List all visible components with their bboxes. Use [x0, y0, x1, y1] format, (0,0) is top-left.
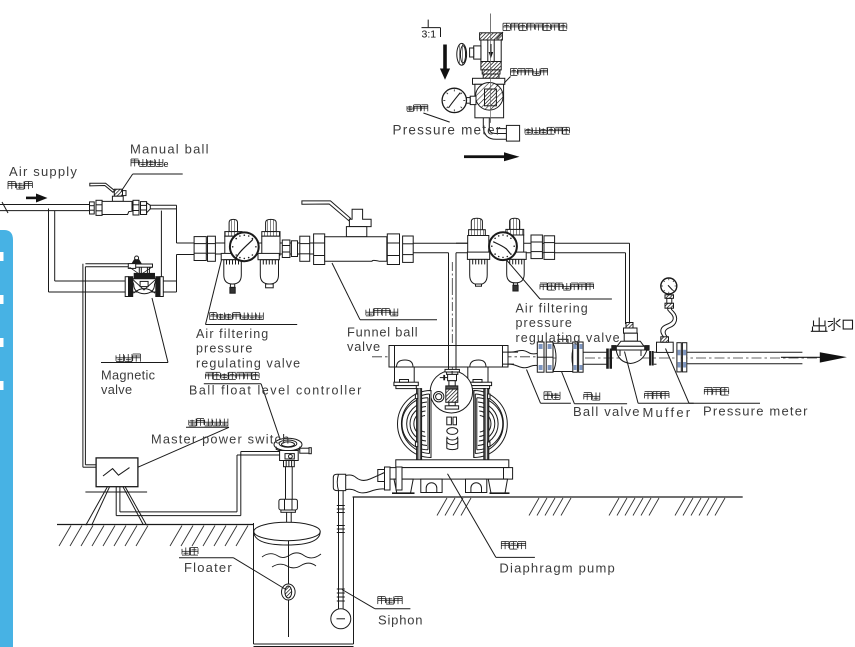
- label: water outlet: [811, 318, 853, 332]
- couplings under valve: [482, 70, 500, 74]
- vertical centerline: [489, 14, 491, 123]
- control line filter2 to outlet regulator: [629, 243, 631, 324]
- float rod: [288, 541, 290, 584]
- master power switch box: [96, 458, 138, 487]
- label: Ball float level controller: [206, 372, 260, 379]
- svg-text:Diaphragm pump: Diaphragm pump: [499, 561, 616, 576]
- elbow to pump connector: [483, 118, 519, 141]
- svg-text:Air filtering: Air filtering: [196, 327, 269, 341]
- air filtering pressure regulating valve assembly 2: [456, 218, 555, 291]
- solenoid knob: [135, 256, 139, 260]
- handwheel: [457, 43, 467, 65]
- svg-text:Master power switch: Master power switch: [151, 432, 290, 447]
- label: Master power switch: [189, 419, 228, 426]
- outlet pipe centerline: [548, 357, 818, 359]
- svg-text:Air filtering: Air filtering: [516, 302, 589, 316]
- unit2 filter: [266, 219, 277, 231]
- main air pipe filter1 to funnel valve: [194, 242, 314, 244]
- label: Air filtering pressure regulating valve left: [210, 313, 264, 320]
- air valve circle: [430, 369, 472, 413]
- center small boxes and spring: [447, 417, 458, 450]
- top plate: [129, 264, 153, 267]
- body bowl: [132, 279, 157, 294]
- svg-text:Pressure meter: Pressure meter: [393, 123, 502, 138]
- muffler box: [657, 337, 674, 353]
- unitA filter: [471, 218, 482, 230]
- pump top manifold: [389, 346, 508, 368]
- svg-text:Floater: Floater: [184, 560, 233, 575]
- air filter (top): [473, 78, 505, 118]
- left flange: [125, 277, 128, 297]
- label: Pressure meter right: [704, 388, 728, 396]
- pipe valve to corner: [150, 205, 176, 209]
- tank: [254, 497, 354, 647]
- connection box left: [128, 264, 135, 269]
- wire from solenoid to power box: [83, 264, 128, 467]
- unitB regulator: [510, 218, 520, 229]
- left diaphragm chamber: [397, 391, 431, 458]
- gauge 2: [489, 232, 517, 260]
- label: air filter: [511, 69, 548, 76]
- vertical pipe down to pump: [448, 253, 450, 346]
- svg-text:regulating valve: regulating valve: [196, 356, 301, 370]
- small gauge in circle: [434, 392, 444, 402]
- right tie bar: [484, 389, 490, 460]
- air supply pipe: [0, 202, 90, 213]
- left discharge stub and flange: [378, 467, 402, 490]
- floater plate ellipse: [254, 522, 320, 545]
- scale mark 3:1: [422, 20, 441, 41]
- float controller head: [274, 438, 311, 522]
- outlet arrow: [781, 356, 822, 358]
- flange pair right of muffler: [677, 343, 687, 372]
- gauge with siphon tube on muffler: [661, 278, 677, 337]
- left manifold elbow: [394, 360, 418, 389]
- svg-text:3:1: 3:1: [422, 29, 437, 41]
- label: Siphon: [378, 597, 402, 605]
- thick right arrow: [464, 152, 520, 161]
- float ball: [282, 584, 296, 600]
- right discharge neck to hose: [508, 352, 518, 364]
- stem: [114, 189, 122, 196]
- svg-text:Air supply: Air supply: [9, 164, 78, 179]
- pipe to regulator: [583, 351, 608, 353]
- label: Floater: [182, 548, 198, 556]
- label: Ball valve: [584, 393, 600, 401]
- label: hose right: [544, 392, 560, 400]
- hose pump to ball valve: [503, 350, 537, 367]
- ground hatching right: [437, 498, 725, 516]
- label: Funnel ball valve: [366, 309, 398, 316]
- tripod under box: [85, 487, 147, 526]
- ground line left (under tripod): [57, 524, 254, 526]
- dark flange right of regulator: [649, 351, 654, 366]
- svg-text:regulating valve: regulating valve: [516, 331, 621, 345]
- svg-text:e: e: [164, 159, 169, 169]
- pressure gauge (top): [442, 88, 476, 112]
- hose elbow pump to siphon: [333, 473, 384, 493]
- gauge 1: [230, 232, 259, 261]
- dark flange pair: [606, 349, 612, 369]
- right couplings: [282, 240, 290, 258]
- handle lever: [90, 183, 115, 192]
- left tie bar: [415, 389, 421, 460]
- pump base: [389, 460, 513, 493]
- bonnet dark: [134, 273, 154, 278]
- unit1 regulator knob: [229, 219, 237, 231]
- label: pressure meter cn: [407, 105, 428, 112]
- inlet fitting at circle top: [445, 369, 459, 372]
- svg-text:valve: valve: [347, 339, 381, 354]
- svg-text:Pressure meter: Pressure meter: [703, 404, 809, 419]
- label: Magnetic valve: [116, 354, 140, 362]
- label: Diaphragm pump: [501, 542, 525, 550]
- ground line right (under pump): [353, 496, 743, 498]
- right manifold elbow: [467, 360, 491, 389]
- air supply inlet arrow: [26, 194, 48, 203]
- stem: [285, 467, 287, 500]
- long outlet pipe: [687, 351, 803, 353]
- magnetic valve (solenoid valve): [125, 256, 163, 297]
- air filtering pressure regulating valve assembly 1: [194, 219, 310, 293]
- couplings: [194, 237, 206, 261]
- siphon pipe: [337, 491, 345, 610]
- outlet ball valve flanges: [537, 342, 553, 372]
- branch pipe down-left loop: [49, 209, 177, 293]
- siphon foot ball: [331, 609, 351, 629]
- pressure reducing valve on outlet (buffer): [612, 323, 649, 364]
- thick down arrow: [440, 45, 450, 80]
- ground hatching left: [59, 526, 248, 547]
- descending channel: [161, 205, 194, 292]
- svg-text:pressure: pressure: [196, 342, 253, 356]
- funnel ball valve: [302, 201, 413, 265]
- right couplings: [531, 235, 542, 259]
- right hexes: [387, 234, 399, 265]
- svg-text:Siphon: Siphon: [378, 613, 423, 628]
- left couplings: [90, 202, 95, 214]
- manifold centerline dash-dot: [372, 356, 543, 358]
- regulator inside circle: [448, 374, 457, 380]
- svg-text:pressure: pressure: [516, 316, 573, 330]
- svg-text:Magnetic: Magnetic: [101, 368, 156, 383]
- outlet ball valve body: [553, 339, 575, 371]
- svg-text:Ball float level controller: Ball float level controller: [189, 384, 363, 398]
- svg-text:Ball valve: Ball valve: [573, 404, 641, 419]
- svg-text:Funnel ball: Funnel ball: [347, 325, 418, 340]
- handle: [302, 201, 351, 221]
- svg-text:Muffer: Muffer: [643, 405, 693, 420]
- right diaphragm chamber: [474, 391, 508, 458]
- right flange: [156, 277, 160, 297]
- svg-text:valve: valve: [101, 382, 132, 397]
- label: diaphragm pump connector: [525, 127, 570, 134]
- posts: [138, 267, 140, 273]
- label: regulating air source valve: [503, 23, 567, 30]
- pipe regulator to muffler: [654, 351, 657, 353]
- pipe funnel valve to tee and filter2: [413, 242, 629, 244]
- wire from box to float controller: [116, 452, 279, 516]
- right couplings: [133, 200, 139, 215]
- body: [102, 201, 132, 214]
- label: Air filtering pressure regulating valve right: [540, 283, 594, 290]
- svg-text:Manual ball: Manual ball: [130, 142, 210, 157]
- hex nut: [279, 499, 298, 510]
- body: [325, 237, 387, 262]
- regulating valve of air source (top valve): [457, 33, 503, 79]
- label: Muffer: [645, 392, 669, 400]
- blue sidebar widget: [0, 230, 13, 647]
- manual ball valve: [90, 183, 151, 215]
- water wavy lines: [262, 553, 321, 568]
